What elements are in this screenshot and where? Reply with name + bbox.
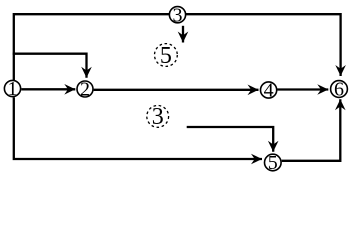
- dashed node 3: [147, 104, 169, 130]
- svg-text:5: 5: [268, 152, 278, 174]
- svg-text:6: 6: [334, 79, 344, 101]
- node 2: [77, 79, 93, 101]
- wire: node 4 to node 6 (arrow right): [277, 88, 328, 90]
- svg-text:4: 4: [264, 80, 274, 102]
- wire: node 1 down, along bottom, into node 5 (arrow right): [14, 97, 262, 159]
- wire: mid horizontal line turning down into node 5 (arrow down): [187, 127, 274, 152]
- node 5 (bottom): [265, 152, 282, 174]
- dashed node 5: [155, 43, 178, 69]
- svg-text:1: 1: [8, 78, 18, 100]
- wire: node 2 to node 4 (arrow right): [94, 89, 259, 91]
- node 6: [331, 79, 348, 101]
- node 1: [4, 78, 20, 100]
- node 4: [261, 80, 277, 102]
- svg-text:5: 5: [160, 43, 172, 69]
- svg-text:3: 3: [173, 4, 183, 26]
- wire: node 5 right then up into node 6 (arrow up): [282, 99, 341, 161]
- wire: node 1 to node 2 (arrow right): [21, 88, 75, 90]
- wire: from node 1 up, along top edge, down into node 6 with arrow: [14, 14, 341, 80]
- wire: branch from left vertical to node 2 (arrow down into 2): [13, 54, 87, 78]
- svg-text:2: 2: [80, 79, 90, 101]
- node 3 (on top edge): [169, 4, 185, 26]
- svg-text:3: 3: [152, 104, 164, 130]
- small arrow below node 3 pointing down: [182, 26, 184, 43]
